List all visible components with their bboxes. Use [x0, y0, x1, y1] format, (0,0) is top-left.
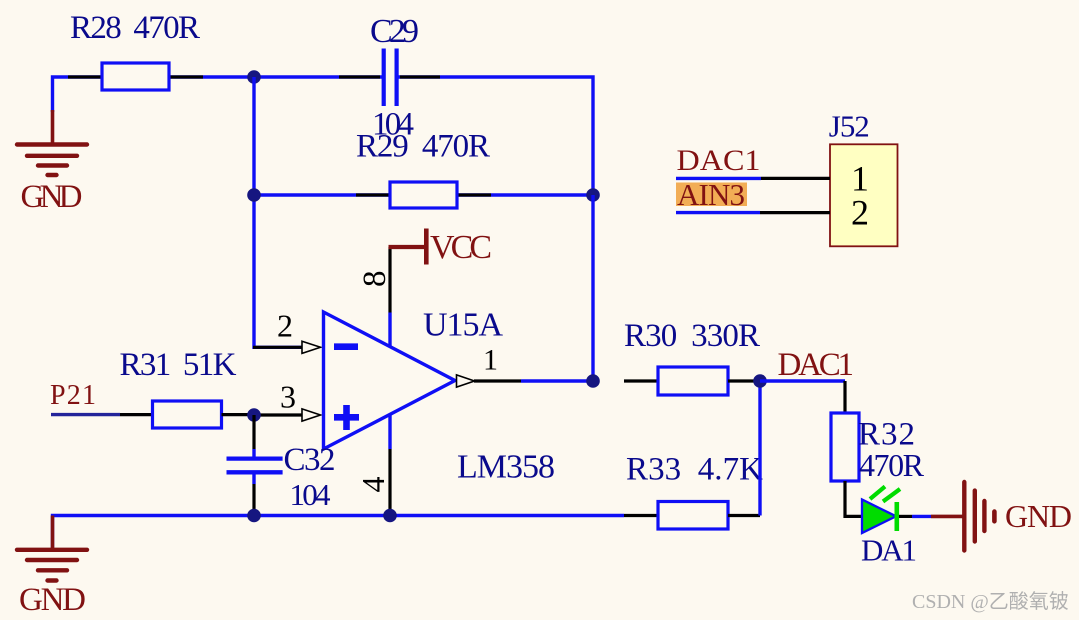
svg-text:1: 1	[483, 343, 498, 376]
svg-text:GND: GND	[1005, 498, 1072, 534]
node junction (593,195)	[586, 188, 600, 202]
svg-text:LM358: LM358	[457, 449, 555, 486]
pin 2 wire black	[253, 346, 302, 349]
wire R28 left pin black	[68, 75, 102, 78]
svg-text:VCC: VCC	[430, 229, 492, 266]
ground GND top-left	[51, 110, 55, 144]
wire AIN3 stub	[676, 211, 760, 214]
op-amp minus symbol	[334, 343, 358, 350]
node AIN3 highlight	[676, 183, 747, 207]
svg-text:DAC1: DAC1	[677, 144, 761, 177]
svg-text:4: 4	[355, 477, 391, 493]
wire bottom row blue y=515.5	[53, 516, 625, 550]
wire R30 right pin black	[728, 379, 760, 382]
capacitor C32	[252, 415, 255, 449]
svg-text:CSDN @乙酸氧铍: CSDN @乙酸氧铍	[912, 590, 1069, 613]
pin 4 wire	[388, 415, 391, 450]
svg-text:8: 8	[357, 271, 393, 288]
wire P21 stub	[51, 413, 120, 416]
node junction (593,381)	[586, 374, 600, 388]
pin 2 arrow	[302, 341, 321, 353]
svg-text:R33 4.7K: R33 4.7K	[626, 452, 763, 488]
wire C29 left pin black	[339, 75, 380, 78]
wire row2 y=195 blue	[254, 193, 593, 196]
LED DA1	[862, 500, 896, 534]
svg-text:470R: 470R	[859, 447, 925, 483]
wire J52 pin2 black	[760, 211, 830, 214]
pin 1 wire black	[474, 379, 521, 382]
resistor R29	[390, 182, 457, 208]
svg-text:C29: C29	[370, 13, 419, 50]
wire R32 bottom pin black to LED	[845, 481, 862, 516]
pin 3 arrow	[302, 409, 321, 421]
pin 8 wire	[388, 247, 391, 313]
pin 3 wire black	[254, 413, 302, 416]
op-amp plus symbol	[334, 414, 359, 421]
svg-text:AIN3: AIN3	[677, 177, 745, 212]
node junction (254,77)	[247, 70, 261, 84]
svg-text:R31 51K: R31 51K	[120, 347, 237, 383]
resistor R33	[658, 502, 728, 530]
svg-text:2: 2	[851, 193, 869, 233]
svg-text:R29 470R: R29 470R	[356, 128, 490, 164]
capacitor C29	[382, 49, 386, 107]
wire top row right of C29	[397, 77, 594, 195]
wire DAC1 node to R32 corner	[760, 379, 845, 382]
wire R32 top pin black	[843, 381, 846, 413]
wire R29 right pin black	[457, 193, 491, 196]
wire vertical x=254 from top row to pin2	[254, 77, 302, 347]
node junction DAC1 (760,381)	[753, 374, 767, 388]
svg-text:P21: P21	[50, 380, 96, 411]
wire R29 left pin black	[356, 193, 390, 196]
op-amp U15A triangle	[324, 312, 456, 449]
node junction (254,515.5)	[247, 509, 261, 523]
wire R28 right pin black	[169, 75, 203, 78]
svg-text:R28 470R: R28 470R	[70, 10, 200, 46]
wire R31 right pin black	[222, 413, 255, 416]
pin 1 output arrow	[457, 375, 475, 387]
svg-text:C32: C32	[284, 442, 336, 478]
wire vertical x=760 up to DAC1 node	[758, 381, 761, 516]
svg-text:3: 3	[280, 379, 296, 415]
power VCC	[389, 245, 427, 249]
svg-text:U15A: U15A	[423, 307, 503, 344]
resistor R32	[831, 413, 859, 481]
wire C29 right pin black	[400, 75, 440, 78]
ground GND bottom-left	[51, 516, 55, 550]
svg-text:DAC1: DAC1	[778, 347, 855, 383]
svg-text:R30 330R: R30 330R	[624, 318, 760, 354]
resistor R28	[102, 63, 169, 90]
wire DAC1 stub	[676, 177, 761, 180]
svg-text:GND: GND	[21, 179, 83, 215]
wire LED to GND: black then blue then dark red	[899, 515, 912, 518]
wire vertical x=593 row2 to output row	[591, 195, 594, 381]
wire J52 pin1 black	[761, 177, 830, 180]
wire R33 right pin black	[728, 514, 760, 517]
svg-text:2: 2	[277, 308, 293, 344]
node junction (390,515.5)	[383, 509, 397, 523]
resistor R31	[153, 401, 222, 428]
wire R33 left pin black	[624, 514, 658, 517]
node junction (254,195)	[247, 188, 261, 202]
svg-text:104: 104	[290, 477, 332, 512]
node junction (254,415)	[247, 408, 261, 422]
resistor R30	[658, 367, 728, 395]
wire top row blue y=77	[53, 77, 385, 112]
wire R30 left pin black	[624, 379, 658, 382]
ground GND right (rotated)	[962, 482, 966, 551]
svg-text:DA1: DA1	[861, 533, 917, 568]
wire output blue to junction	[521, 379, 593, 382]
wire R31 left pin black	[120, 413, 153, 416]
svg-text:GND: GND	[19, 582, 86, 618]
svg-text:J52: J52	[829, 108, 870, 143]
